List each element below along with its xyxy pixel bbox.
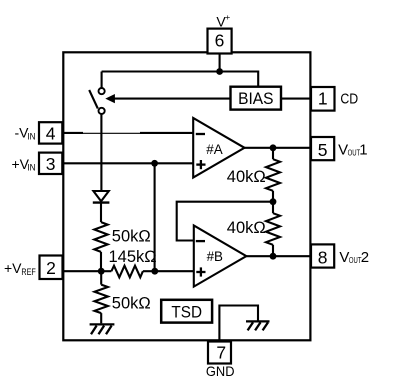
op-amp U1 #A xyxy=(193,118,244,178)
svg-text:+V: +V xyxy=(4,260,22,276)
svg-text:3: 3 xyxy=(46,154,56,174)
op-amp U2 #B xyxy=(194,226,247,287)
svg-text:+: + xyxy=(225,12,230,22)
svg-text:5: 5 xyxy=(318,140,328,160)
resistor R3 50k (upper) xyxy=(94,203,107,272)
node +VIN junction xyxy=(151,160,158,167)
wire pin 7 to internal ground xyxy=(219,306,258,341)
pin 5 xyxy=(311,137,334,160)
wire feedback to op-amp B inverting input xyxy=(177,202,273,241)
resistor R4 50k (lower) xyxy=(95,271,108,323)
ground symbol (right, near pin 7) xyxy=(246,321,270,330)
pin 1 xyxy=(311,87,335,111)
wire +VIN to op-amp A non-inverting input xyxy=(62,162,193,164)
IC outline box xyxy=(63,52,310,340)
svg-text:BIAS: BIAS xyxy=(238,90,273,108)
svg-text:REF: REF xyxy=(21,267,36,278)
svg-text:7: 7 xyxy=(216,343,226,363)
wire divider node to op-amp B non-inverting input xyxy=(155,270,194,272)
wire pin6 down to bias rail xyxy=(219,54,221,72)
pin 8 xyxy=(311,244,334,267)
svg-text:IN: IN xyxy=(27,163,35,174)
svg-text:#A: #A xyxy=(206,142,222,157)
wire op-amp A output to pin 5 xyxy=(245,147,312,149)
wire op-amp B output to pin 8 xyxy=(246,255,311,257)
pin 4 xyxy=(39,122,62,143)
resistor R2 40k (between feedback node and B output) xyxy=(266,202,280,257)
wire +VIN junction down to VREF divider node xyxy=(154,163,156,271)
wire switch down to diode xyxy=(100,114,102,191)
+VIN label xyxy=(12,156,36,174)
svg-text:2: 2 xyxy=(361,249,369,266)
svg-text:50kΩ: 50kΩ xyxy=(112,227,151,245)
switch S1 xyxy=(89,72,105,115)
resistor R1 40k (between A output and feedback node) xyxy=(266,148,280,202)
node VREF left junction xyxy=(98,268,105,275)
node VREF right junction xyxy=(151,268,158,275)
svg-text:50kΩ: 50kΩ xyxy=(112,295,151,313)
resistor R5 145k (horizontal) xyxy=(101,266,155,278)
svg-text:6: 6 xyxy=(215,30,225,50)
svg-text:#B: #B xyxy=(207,249,223,264)
wire pin2 to divider node xyxy=(63,270,102,272)
svg-text:40kΩ: 40kΩ xyxy=(227,168,266,186)
svg-text:4: 4 xyxy=(46,123,56,143)
VOUT1 label xyxy=(338,142,367,159)
-VIN label xyxy=(15,125,36,143)
ground symbol (left, below R4) xyxy=(90,324,115,334)
svg-text:IN: IN xyxy=(27,131,35,142)
wire BIAS to switch control arrow xyxy=(105,94,230,103)
BIAS box U3 xyxy=(231,87,282,110)
svg-text:TSD: TSD xyxy=(171,304,202,322)
wire -VIN to op-amp A inverting input xyxy=(62,132,193,135)
svg-text:CD: CD xyxy=(340,90,358,107)
pin 6 xyxy=(208,29,232,54)
svg-text:145kΩ: 145kΩ xyxy=(109,248,157,266)
wire bias rail (switch top to BIAS box top) xyxy=(102,72,259,87)
pin 3 xyxy=(39,153,62,174)
pin 7 xyxy=(208,342,231,364)
svg-text:8: 8 xyxy=(318,247,328,267)
node feedback junction xyxy=(270,198,277,205)
TSD box U4 xyxy=(161,300,212,323)
node A output junction xyxy=(270,144,277,151)
VOUT2 label xyxy=(339,249,369,266)
svg-text:2: 2 xyxy=(46,258,56,278)
V+ label xyxy=(216,12,230,29)
wire BIAS to pin 1 xyxy=(281,98,311,100)
svg-text:GND: GND xyxy=(206,363,235,379)
svg-text:40kΩ: 40kΩ xyxy=(227,219,266,237)
diode D1 xyxy=(93,191,110,203)
svg-text:1: 1 xyxy=(318,89,328,109)
svg-text:1: 1 xyxy=(359,142,367,159)
node V+ junction xyxy=(216,68,223,75)
node B output junction xyxy=(270,253,277,260)
pin 2 xyxy=(40,256,63,280)
+VREF label xyxy=(4,260,36,278)
